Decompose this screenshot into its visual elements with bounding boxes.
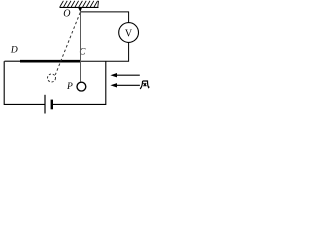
svg-text:V: V [125, 28, 133, 39]
svg-text:O: O [63, 9, 70, 20]
svg-text:D: D [10, 46, 18, 56]
svg-text:P: P [66, 82, 73, 92]
